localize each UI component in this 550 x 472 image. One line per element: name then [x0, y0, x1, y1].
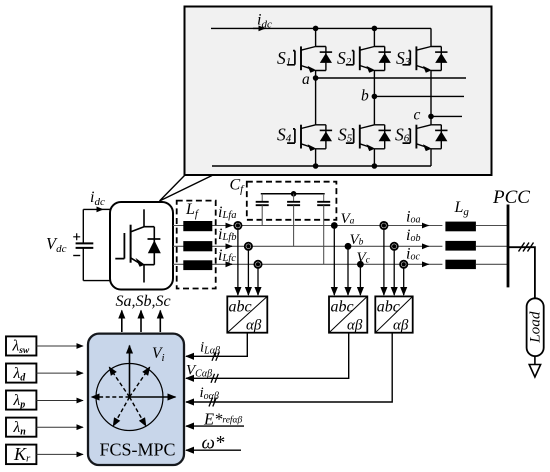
svg-text:abc: abc [377, 299, 400, 316]
svg-text:ioa: ioa [406, 209, 420, 226]
svg-text:Sa,Sb,Sc: Sa,Sb,Sc [116, 293, 171, 310]
svg-text:VCαβ: VCαβ [186, 363, 212, 380]
svg-text:iob: iob [406, 227, 420, 244]
svg-text:a: a [302, 71, 310, 88]
svg-text:Vb: Vb [350, 232, 364, 248]
svg-text:Lg: Lg [454, 199, 470, 218]
svg-text:ω*: ω* [202, 433, 225, 454]
svg-text:idc: idc [90, 189, 105, 208]
svg-text:PCC: PCC [492, 187, 530, 208]
svg-text:Cf: Cf [230, 177, 246, 196]
svg-text:αβ: αβ [347, 318, 363, 334]
svg-text:Vdc: Vdc [46, 234, 67, 255]
svg-text:Lf: Lf [185, 201, 200, 220]
svg-text:Load: Load [527, 311, 544, 344]
svg-text:iLαβ: iLαβ [200, 340, 220, 357]
svg-text:Va: Va [341, 211, 355, 227]
svg-text:αβ: αβ [393, 318, 409, 334]
svg-text:iLfc: iLfc [218, 247, 236, 264]
svg-text:abc: abc [229, 299, 252, 316]
svg-text:iLfa: iLfa [218, 204, 236, 221]
svg-text:iLfb: iLfb [218, 226, 236, 243]
svg-text:Vc: Vc [357, 250, 371, 266]
svg-text:ioc: ioc [406, 246, 420, 263]
svg-text:c: c [414, 107, 421, 124]
svg-text:b: b [361, 88, 369, 105]
svg-text:abc: abc [331, 299, 354, 316]
svg-text:FCS-MPC: FCS-MPC [99, 440, 175, 460]
svg-text:αβ: αβ [246, 318, 262, 334]
